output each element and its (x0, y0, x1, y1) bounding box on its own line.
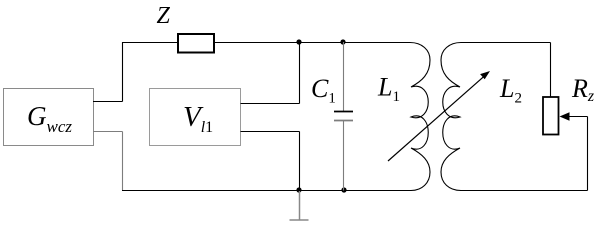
wire node A vertical (299, 42, 301, 104)
wire V lower stub (241, 131, 300, 133)
wire G lower stub (93, 131, 123, 133)
capacitor C1 top lead (343, 42, 345, 112)
wire G upper stub (93, 101, 123, 103)
wire left vertical down (122, 132, 124, 191)
inductor L1 (404, 43, 430, 191)
node A junction dot (296, 39, 301, 44)
wire V upper stub (241, 103, 300, 105)
node B junction dot (340, 39, 345, 44)
Rz wiper arrowhead (560, 112, 570, 121)
inductor L2 (441, 43, 466, 191)
svg-text:Z: Z (157, 3, 171, 29)
node D junction dot (341, 187, 346, 192)
wire Z to node A (214, 42, 299, 44)
wire left vertical up (122, 42, 124, 102)
wire right vertical down (587, 117, 589, 191)
resistor Rz box (543, 97, 559, 135)
wire V lower vertical to ground node (299, 132, 301, 191)
wire L2 top to corner (466, 42, 551, 44)
generator G_wcz box (4, 89, 94, 146)
wire node B to L1 top (343, 42, 404, 44)
Rz wiper wire (568, 116, 588, 118)
ground bar (290, 219, 309, 221)
variable coupling arrowhead (480, 71, 490, 79)
wire bottom left (122, 190, 411, 192)
ground stem (299, 191, 301, 220)
wire corner down to Rz (550, 43, 552, 98)
capacitor C1 top plate (334, 111, 353, 113)
wire node A to node B (299, 42, 343, 44)
wire bottom right (460, 190, 588, 192)
variable coupling arrow shaft (388, 77, 484, 161)
impedance Z box (178, 34, 214, 53)
capacitor C1 bottom lead (343, 121, 345, 191)
wire top left to Z (122, 42, 178, 44)
node C junction dot (296, 187, 301, 192)
capacitor C1 bottom plate (334, 120, 353, 122)
voltmeter V_l1 box (150, 89, 241, 146)
